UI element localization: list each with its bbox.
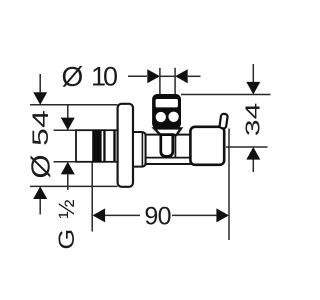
valve: outlet tongue bbox=[161, 135, 173, 157]
dim Ø10 right arrow bbox=[175, 69, 200, 83]
dim Ø10 label bbox=[62, 61, 119, 92]
dim G1/2 bottom extension line bbox=[54, 161, 79, 163]
valve: shut-off head bbox=[152, 94, 181, 129]
dim Ø10 middle segment bbox=[160, 75, 175, 77]
svg-text:3: 3 bbox=[242, 119, 264, 136]
svg-text:0: 0 bbox=[158, 202, 172, 230]
dim label Ø54 bbox=[27, 110, 56, 178]
valve: head top window bbox=[156, 99, 178, 107]
dim Ø54 lower arrow bbox=[33, 186, 47, 214]
dim 90 right extension line bbox=[228, 129, 230, 241]
dim 90 left arrow bbox=[93, 208, 141, 222]
valve: head left circle bbox=[156, 112, 166, 122]
dim G1/2 upper arrow bbox=[61, 105, 75, 130]
svg-text:4: 4 bbox=[28, 110, 53, 128]
svg-text:4: 4 bbox=[242, 103, 264, 120]
dim G1/2 lower arrow bbox=[61, 162, 75, 190]
spindle stem left extension line bbox=[159, 68, 161, 94]
svg-text:0: 0 bbox=[103, 62, 118, 92]
dim Ø54 top extension line bbox=[30, 104, 118, 106]
valve: thread ring line bbox=[103, 130, 105, 163]
dim label 90 bbox=[144, 202, 171, 230]
dim Ø10 left arrow bbox=[128, 69, 160, 83]
dim 34 upper arrow bbox=[246, 64, 260, 95]
svg-text:9: 9 bbox=[144, 202, 158, 230]
valve: body bbox=[146, 135, 191, 164]
valve: knob lever bbox=[219, 113, 228, 128]
dim 34 top extension line bbox=[181, 94, 271, 96]
valve: stub slot right edge bbox=[113, 131, 115, 162]
svg-text:5: 5 bbox=[28, 128, 53, 146]
dim Ø54 bottom extension line bbox=[30, 185, 118, 187]
valve: head right circle bbox=[168, 112, 178, 122]
valve: body lower inner line bbox=[146, 157, 190, 159]
svg-text:½: ½ bbox=[54, 199, 78, 218]
dim 34 lower arrow bbox=[246, 147, 260, 172]
dim 34 bottom extension line bbox=[226, 146, 268, 148]
dim Ø54 upper arrow bbox=[33, 74, 47, 105]
svg-text:Ø: Ø bbox=[27, 154, 56, 178]
svg-text:G: G bbox=[55, 229, 79, 250]
dim label G1/2 bbox=[54, 199, 79, 249]
valve: body right inner line bbox=[174, 135, 176, 157]
dim G1/2 top extension line bbox=[54, 129, 79, 131]
valve: thread block bbox=[92, 130, 101, 163]
valve: knob block bbox=[190, 127, 224, 165]
dim 90 left extension line bbox=[91, 163, 93, 232]
valve: hub inner line bbox=[141, 132, 143, 166]
svg-text:Ø: Ø bbox=[62, 61, 84, 92]
dim 90 right arrow bbox=[172, 208, 229, 222]
valve: wall flange Ø54 bbox=[118, 104, 133, 187]
spindle stem right extension line bbox=[174, 68, 176, 94]
dim label 34 bbox=[242, 103, 264, 136]
valve: threaded stub G1/2 bbox=[76, 130, 118, 162]
valve: bonnet trapezoid bbox=[154, 128, 181, 135]
valve: flange hub neck bbox=[133, 132, 146, 167]
